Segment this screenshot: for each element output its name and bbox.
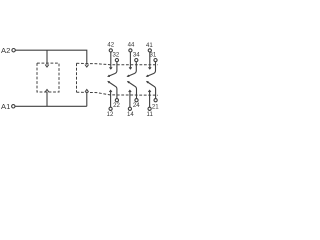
svg-text:12: 12 <box>107 112 114 118</box>
svg-text:21: 21 <box>152 104 159 110</box>
svg-text:44: 44 <box>128 43 135 49</box>
svg-text:31: 31 <box>150 53 157 59</box>
svg-text:32: 32 <box>113 53 120 59</box>
svg-text:41: 41 <box>146 43 153 49</box>
svg-text:42: 42 <box>107 43 114 49</box>
svg-text:22: 22 <box>113 103 120 109</box>
svg-text:11: 11 <box>147 112 154 118</box>
svg-text:24: 24 <box>133 103 140 109</box>
svg-text:34: 34 <box>133 53 140 59</box>
svg-text:14: 14 <box>127 112 134 118</box>
svg-text:A2: A2 <box>1 46 10 55</box>
svg-text:A1: A1 <box>1 102 10 111</box>
